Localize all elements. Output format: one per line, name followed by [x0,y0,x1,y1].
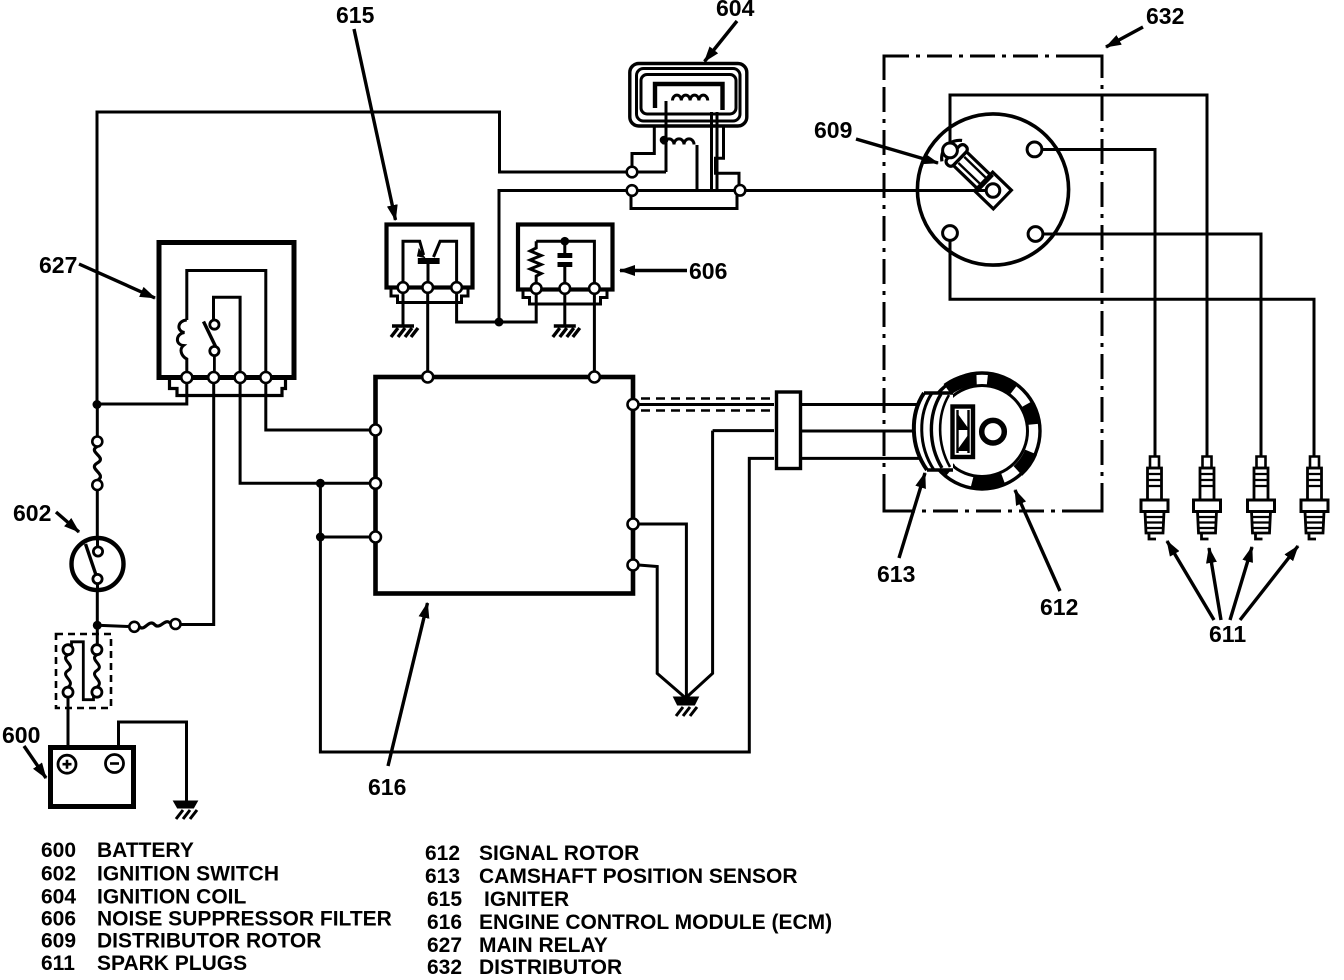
svg-text:616: 616 [368,774,406,800]
svg-text:615: 615 [336,2,375,28]
battery 600 [51,748,134,807]
fusible link box (dashed) [56,634,111,708]
ground G4 ECM signal ground [674,697,699,716]
igniter pins [398,282,462,293]
wire rotor contact BR to spark plug 3 [1043,234,1261,456]
filter capacitor C [558,241,573,283]
wire igniter right pin to noise filter left pin (shared ground-side link) [457,293,537,322]
svg-text:615IGNITER: 615IGNITER [427,888,569,911]
node junction igniter/filter/coil [495,318,504,327]
svg-text:616ENGINE CONTROL MODULE (ECM): 616ENGINE CONTROL MODULE (ECM) [427,911,832,934]
svg-text:609: 609 [814,117,852,143]
relay pins 1-4 [181,372,271,383]
wire long return loop from junction x320 down right and up to connector pin3 [320,458,774,752]
wire main relay pin1 to battery rail [97,383,187,404]
label 609 with leader arrow to rotor arm [814,117,938,163]
fusible link cross strap [72,642,94,700]
label 600 with leader arrow to battery [2,722,46,778]
svg-text:632: 632 [1146,3,1184,29]
wire switch junction to F2 [97,625,129,626]
wire rotor contact TL up over and down to spark plug 2 [950,95,1207,456]
wire rotor contact BL down around to spark plug 4 [950,241,1314,456]
ground G2 under noise filter [553,326,580,337]
svg-text:604: 604 [716,0,755,21]
svg-text:627MAIN RELAY: 627MAIN RELAY [427,934,608,957]
spark plug P3 [1248,457,1275,540]
wire main relay pin3 to ECM left terminal row2 [240,383,371,483]
wire main relay pin4 to ECM left terminal row1 [266,383,371,430]
svg-text:613: 613 [877,561,915,587]
node coil secondary dot [660,136,669,145]
svg-text:612: 612 [1040,594,1078,620]
wire ignition switch to lower junction [96,590,99,646]
svg-text:611: 611 [1209,621,1246,647]
spark plug P4 [1301,457,1328,540]
wire connector to camshaft sensor lead 3 [801,457,921,460]
node junction battery rail / relay pin1 [93,400,102,409]
svg-text:612SIGNAL ROTOR: 612SIGNAL ROTOR [425,842,639,865]
wire connector to camshaft sensor lead 1 [801,403,921,406]
svg-text:632DISTRIBUTOR: 632DISTRIBUTOR [427,956,622,979]
distributor rotor 609 cap circle [917,114,1068,265]
rotor arm assembly [937,135,1013,210]
svg-text:600: 600 [2,722,40,748]
ignition coil 604 body (nested case outlines) [630,64,747,127]
WIRES_START [68,95,1314,801]
fuse F2 terminal circles [129,622,139,632]
ground G3 battery negative [174,801,198,819]
ECM terminals right [628,399,639,410]
label 616 with leader arrow to ECM [368,603,428,800]
wire dashed harness line upper [641,397,773,400]
distributor box corner reinforcements [884,56,1102,511]
label 612 with leader arrow to signal rotor [1015,490,1078,620]
wire stubs inside rotor cap circle [916,126,1058,253]
wire ignition-switch column: fuse top lead [96,405,99,437]
label 632 with leader arrow to distributor box corner [1106,3,1184,47]
node junction x320/y537 [316,533,325,542]
noise suppressor filter 606 box [518,225,613,305]
wire connector to camshaft sensor lead 2 [801,430,918,433]
ignition coil lower case outline [631,126,739,209]
svg-text:602: 602 [13,500,51,526]
fusible link FL2 right [92,645,102,698]
ECM terminals top [370,372,639,571]
sensor pickup core [953,407,974,458]
wire fuse to ignition switch [96,490,99,539]
wire connector pin2 down to ECM ground point [686,431,774,698]
svg-text:604IGNITION COIL: 604IGNITION COIL [41,886,247,909]
relay coil winding [177,320,186,372]
fuse F1 upper squiggle [94,447,100,481]
wire coil secondary high-tension to distributor rotor center [746,189,987,192]
wire dashed harness line lower [641,409,773,412]
label 615 with leader arrow to igniter [336,2,396,220]
wire ECM right pin (524) to ground point [639,524,687,697]
spark plug P2 [1194,457,1221,540]
label 604 with leader arrow to ignition coil [705,0,755,62]
LABELS_START [2,0,1298,800]
node junction switch output [93,621,102,630]
filter top bus and right leg [536,241,594,283]
svg-text:609DISTRIBUTOR ROTOR: 609DISTRIBUTOR ROTOR [41,930,321,953]
wire rotor contact TR to spark plug 1 [1042,150,1155,457]
wire main relay pin2 down to ignition switch fuse line [181,383,214,625]
ECM terminals left [370,425,381,436]
wire battery-feed top run: node B+ rail from x=97 up and across to ignition coil terminal 1 [97,112,627,405]
label 606 with leader arrow to noise filter [620,258,727,284]
igniter 615 box [387,225,473,303]
wire igniter left pin to ground [402,293,405,326]
igniter internal power transistor [403,241,457,282]
relay switch contacts and blade [204,320,219,372]
signal rotor black segments [938,379,1034,482]
ignition coil secondary loops [664,139,694,145]
svg-text:613CAMSHAFT POSITION SENSOR: 613CAMSHAFT POSITION SENSOR [425,865,798,888]
node junction x320/y483 [316,479,325,488]
wire battery positive up to fusible link box [67,697,70,748]
main relay 627 box [159,243,294,396]
node filter cap junction [561,237,570,246]
wire igniter center pin to ECM top terminal [426,293,429,372]
legend text block [41,839,832,979]
signal rotor center hole [982,420,1005,443]
wire ECM right pin (565) to ground point [639,565,685,697]
svg-text:606NOISE SUPPRESSOR FILTER: 606NOISE SUPPRESSOR FILTER [41,908,392,931]
ignition coil primary winding loops [673,95,708,100]
label 627 with leader arrow to main relay [39,252,155,298]
ground G1 under igniter [391,326,418,337]
label 602 with leader arrow to ignition switch [13,500,79,532]
fuse F2 horizontal squiggle to relay pin2 [139,622,170,628]
signal rotor 612 ring [924,373,1040,489]
wire ECM right pin (404) solid line to connector pin1 [639,403,775,406]
wire battery negative to ground [119,722,187,801]
fusible link FL1 left [63,645,73,698]
label 611 with four leader arrows to spark plugs [1167,541,1298,647]
camshaft position sensor 613 body [914,393,973,470]
label 613 with leader arrow to camshaft position sensor [877,473,925,587]
wire ignition coil terminal 2 down to igniter/filter junction [499,191,627,323]
ignition coil terminals [627,167,746,196]
spark plug P1 [1141,457,1168,540]
rotor cap contacts TL TR BL BR [943,142,1043,241]
fuse F1 terminal circles [92,437,102,447]
wire filter right pin to ECM top terminal [593,294,596,372]
ignition coil internal leads [666,101,717,191]
wire filter center pin to ground [563,294,566,326]
filter pins [531,283,600,294]
svg-text:602IGNITION SWITCH: 602IGNITION SWITCH [41,863,279,886]
filter resistor R [530,241,541,283]
svg-text:627: 627 [39,252,77,278]
harness connector J1 [777,392,801,469]
svg-text:606: 606 [689,258,727,284]
wire ECM left terminal row3 branch [320,536,371,539]
svg-text:600BATTERY: 600BATTERY [41,839,194,862]
distributor 632 dash-dot boundary box [884,56,1102,511]
rotor center contact [986,184,1000,198]
ignition switch 602 [72,538,124,591]
ECM U1 box 616 [376,377,634,594]
svg-text:611SPARK PLUGS: 611SPARK PLUGS [41,952,247,975]
